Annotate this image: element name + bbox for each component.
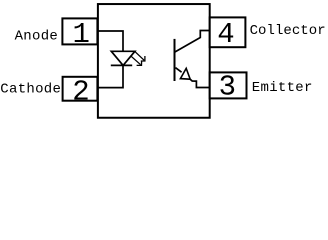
svg-text:2: 2 [72, 76, 89, 109]
transistor Q1 collector wire to pin 4 [175, 31, 210, 53]
pin box 3 [210, 72, 247, 98]
svg-text:1: 1 [72, 18, 89, 51]
svg-text:4: 4 [217, 18, 234, 51]
transistor Q1 emitter shaft [176, 68, 182, 73]
transistor Q1 base bar [174, 39, 176, 81]
LED emission arrow 1 [135, 52, 145, 61]
svg-text:Cathode: Cathode [0, 82, 61, 98]
wire LED cathode to pin2 [98, 65, 123, 87]
svg-text:3: 3 [219, 71, 236, 104]
LED emission arrow 2 [131, 56, 141, 65]
svg-text:Emitter: Emitter [252, 80, 313, 96]
pin box 4 [210, 17, 246, 47]
transistor Q1 emitter arrowhead [180, 68, 190, 79]
svg-text:Anode: Anode [15, 28, 59, 44]
svg-text:Collector: Collector [250, 23, 326, 39]
wire pin1 to LED anode [98, 31, 123, 51]
pin box 1 [62, 18, 97, 44]
diode D1 cathode bar [111, 64, 132, 66]
pin box 2 [63, 77, 98, 101]
diode D1 triangle [111, 51, 135, 65]
IC body U1 [98, 4, 210, 118]
transistor Q1 emitter wire to pin 3 [190, 79, 210, 87]
